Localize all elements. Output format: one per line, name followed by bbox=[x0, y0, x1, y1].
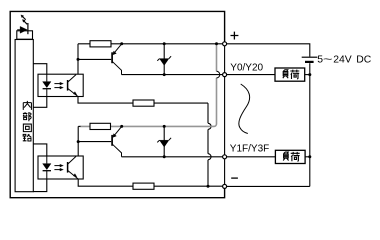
output rail Y0 (channel 1) bbox=[122, 74, 225, 76]
node dot ZD2 bottom bbox=[163, 155, 166, 158]
node dot ZD1 top bbox=[163, 42, 166, 45]
module outline / common wire loop bbox=[10, 11, 224, 197]
wire: internal box to opto1 LED anode bbox=[33, 64, 47, 74]
channel 2: left corner and collector riser bbox=[77, 126, 79, 156]
zener diode ZD1 bbox=[157, 44, 171, 75]
resistor R4 (channel 2 emitter line) bbox=[133, 183, 154, 189]
load box 2 bbox=[275, 150, 305, 163]
svg-text:Y0/Y20: Y0/Y20 bbox=[230, 62, 263, 73]
svg-text:24V: 24V bbox=[333, 55, 352, 66]
optocoupler U2 phototransistor bbox=[68, 156, 79, 179]
terminal Y1F/Y3F bbox=[223, 155, 227, 159]
wire: + rail to battery bbox=[227, 44, 310, 57]
node dot ZD1 bottom bbox=[163, 73, 166, 76]
svg-text:~: ~ bbox=[323, 53, 333, 65]
node dot gray feed at + rail bbox=[215, 42, 218, 45]
wire: load 2 to battery line bbox=[305, 156, 310, 158]
load box 1 bbox=[275, 68, 305, 81]
gray feed: + rail to channel 2 rail bbox=[80, 44, 217, 126]
terminal Y0/Y20 bbox=[223, 73, 227, 77]
svg-text:DC: DC bbox=[356, 55, 372, 66]
resistor R3 (channel 2 pull-up) bbox=[90, 123, 111, 129]
wire: opto2 LED cathode to internal box bbox=[33, 179, 47, 192]
wire: Y1F rail to load 2 bbox=[227, 156, 276, 158]
optocoupler U1 coupling arrows bbox=[54, 82, 63, 89]
optocoupler U2 LED bbox=[43, 156, 51, 179]
node dot ZD2 top bbox=[163, 125, 166, 128]
node dot Q1 emitter bbox=[120, 42, 123, 45]
terminal + bbox=[223, 42, 227, 46]
optocoupler U2 coupling arrows bbox=[54, 164, 63, 171]
zener diode ZD2 bbox=[157, 126, 171, 156]
wire: load 1 to battery line bbox=[305, 74, 310, 76]
LED indicator resistor box bbox=[17, 31, 33, 39]
wire: drop to minus rail with hops bbox=[208, 103, 211, 186]
wire: internal box to opto2 LED anode bbox=[33, 144, 47, 156]
optocoupler U2 box bbox=[38, 156, 83, 179]
label + bbox=[231, 32, 239, 40]
wire: Q2 base line bbox=[78, 141, 111, 143]
gray feed hop over Y0 rail bbox=[217, 71, 220, 78]
wire: opto1 LED cathode to internal box bbox=[33, 97, 47, 108]
output rail Y1F (channel 2) bbox=[122, 156, 225, 158]
optocoupler U1 LED bbox=[43, 74, 51, 96]
wire: battery negative to minus rail bbox=[227, 185, 310, 187]
optocoupler U1 box bbox=[38, 74, 83, 96]
optocoupler U1 phototransistor bbox=[68, 75, 78, 97]
wire: Q1 base line bbox=[78, 58, 111, 60]
battery 5~24V DC bbox=[302, 57, 318, 186]
terminal minus bbox=[223, 184, 227, 188]
node dot Q2 emitter bbox=[120, 125, 123, 128]
wire: opto1 emitter to R2 line bbox=[78, 97, 208, 104]
internal circuit box 内部回路 bbox=[15, 40, 33, 192]
node dot base2 bbox=[77, 140, 80, 143]
label minus bbox=[231, 177, 238, 179]
LED emission arrows bbox=[21, 15, 27, 24]
LED indicator bbox=[17, 23, 28, 34]
continuation squiggle bbox=[239, 84, 250, 134]
resistor R1 (base pull-up) bbox=[90, 41, 111, 47]
transistor Q2 (PNP) bbox=[112, 126, 122, 156]
node dot drop joins minus rail bbox=[207, 185, 210, 188]
wire: Y0 rail to load 1 bbox=[227, 74, 276, 76]
terminal strip line bbox=[224, 44, 226, 186]
resistor R2 (emitter line) bbox=[133, 100, 154, 106]
transistor Q1 (PNP) bbox=[112, 44, 122, 75]
+ rail (channel 1) bbox=[78, 43, 225, 45]
wire: opto2 emitter to minus rail bbox=[78, 179, 224, 186]
svg-text:Y1F/Y3F: Y1F/Y3F bbox=[230, 143, 269, 154]
node dot base1 bbox=[77, 58, 80, 61]
node: opto1 collector riser bbox=[77, 44, 79, 74]
